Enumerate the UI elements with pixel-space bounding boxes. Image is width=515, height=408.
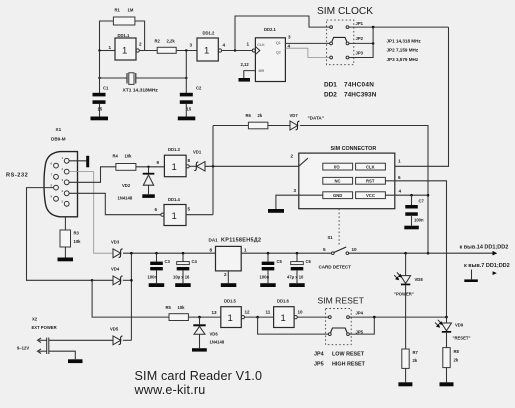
ground R7 xyxy=(398,382,412,386)
shunt on JP2 xyxy=(332,37,347,41)
gate DD1.4 inverter xyxy=(164,205,186,226)
svg-text:www.e-kit.ru: www.e-kit.ru xyxy=(134,383,206,397)
svg-text:1: 1 xyxy=(244,248,247,253)
svg-text:10k: 10k xyxy=(125,154,133,159)
svg-text:3: 3 xyxy=(288,35,291,40)
jumper JP4 xyxy=(328,316,331,319)
inverter bubble DD1.6 output xyxy=(294,316,297,319)
wire: node down to JP5 xyxy=(258,317,328,334)
svg-text:100n: 100n xyxy=(260,275,270,280)
svg-text:2: 2 xyxy=(224,272,227,277)
svg-text:1: 1 xyxy=(228,313,233,324)
svg-text:DD2: DD2 xyxy=(324,92,337,99)
svg-text:13: 13 xyxy=(212,310,218,315)
svg-text:CLK: CLK xyxy=(366,165,375,170)
svg-text:GND: GND xyxy=(333,193,342,198)
svg-text:SIM card Reader V1.0: SIM card Reader V1.0 xyxy=(135,369,263,383)
wire: R5 to DD1.5 input xyxy=(188,316,220,318)
svg-text:CLK: CLK xyxy=(257,43,265,47)
capacitor C7 xyxy=(411,195,413,205)
LED VD8 xyxy=(401,276,411,284)
svg-text:2,12: 2,12 xyxy=(241,62,250,67)
wire: SIM RST to reset common xyxy=(385,181,446,317)
svg-text:VD1: VD1 xyxy=(193,150,202,155)
wire: DD1.1 output to R2 xyxy=(139,50,157,52)
resistor R5 xyxy=(169,314,188,321)
connector SIM body box xyxy=(299,153,395,209)
wire: tap down to R5 row xyxy=(92,280,169,317)
svg-text:Q2: Q2 xyxy=(276,51,281,55)
wire: VD4 to rail xyxy=(123,279,132,281)
LED VD9 xyxy=(442,323,452,331)
wire: JP2 right to common vertical xyxy=(349,42,373,44)
ground C3 xyxy=(149,283,165,287)
junction: JP2 common xyxy=(372,42,375,45)
wire: feedback loop left leg (DD1.1 input to R1 left) xyxy=(100,21,114,51)
svg-text:C4: C4 xyxy=(192,259,198,264)
svg-text:1: 1 xyxy=(172,211,177,222)
svg-text:DD1.5: DD1.5 xyxy=(224,299,237,304)
wire: MR to ground xyxy=(244,71,256,78)
svg-text:LOW RESET: LOW RESET xyxy=(332,352,365,358)
ground DD2.1 MR xyxy=(239,78,251,82)
resistor R8 xyxy=(443,348,450,368)
resistor R4 xyxy=(116,164,136,171)
wire: power rail from VD3 to DA1 xyxy=(123,252,216,254)
svg-text:1: 1 xyxy=(109,45,112,50)
svg-text:10k: 10k xyxy=(74,239,82,244)
dashed link card detect xyxy=(338,209,340,246)
gate DD1.6 inverter xyxy=(274,307,295,328)
svg-text:2: 2 xyxy=(139,42,142,47)
svg-text:VD3: VD3 xyxy=(111,240,120,245)
svg-text:HIGH RESET: HIGH RESET xyxy=(332,362,366,368)
diode VD7 schottky xyxy=(290,121,298,130)
wire: X1 pin4 to DD1.4 input xyxy=(69,193,161,214)
svg-text:74HC393N: 74HC393N xyxy=(344,92,377,99)
connector X2 body xyxy=(46,338,48,355)
svg-text:9–12V: 9–12V xyxy=(17,346,29,351)
svg-text:100n: 100n xyxy=(414,218,424,223)
svg-text:DD1: DD1 xyxy=(324,82,337,89)
svg-text:DB9-M: DB9-M xyxy=(51,137,66,142)
junction: C5 node xyxy=(267,252,270,255)
svg-text:4: 4 xyxy=(399,189,402,194)
svg-text:DD1.6: DD1.6 xyxy=(277,299,290,304)
svg-text:"POWER": "POWER" xyxy=(394,292,414,297)
svg-text:JP2: JP2 xyxy=(356,36,364,41)
svg-text:X2: X2 xyxy=(32,317,38,322)
ground VD2 xyxy=(142,194,155,198)
svg-text:2k: 2k xyxy=(413,358,418,363)
shunt on JP5 xyxy=(331,328,347,333)
contact box NC xyxy=(323,177,353,184)
counter U DD2.1 xyxy=(255,38,285,82)
jumper JP3 xyxy=(330,56,333,59)
wire: X2 minus to ground xyxy=(49,351,76,359)
svg-text:1: 1 xyxy=(204,46,209,57)
wire: data vertical xyxy=(212,126,214,215)
ground C6 xyxy=(289,283,305,287)
svg-text:DD1.1: DD1.1 xyxy=(118,33,131,38)
junction: data node xyxy=(212,165,215,168)
svg-text:1: 1 xyxy=(398,159,401,164)
junction: reset common at VD9 xyxy=(445,316,448,319)
wire: R7 to ground xyxy=(405,368,407,382)
svg-text:VD2: VD2 xyxy=(122,183,131,188)
svg-text:S1: S1 xyxy=(328,235,334,240)
svg-text:100n: 100n xyxy=(148,275,158,280)
ground VD6 xyxy=(192,348,207,351)
LED arrows VD8 xyxy=(397,272,401,276)
svg-text:10: 10 xyxy=(352,247,358,252)
svg-text:8: 8 xyxy=(188,158,191,163)
resistor R1 xyxy=(113,17,134,25)
svg-text:DD1.4: DD1.4 xyxy=(168,197,181,202)
svg-text:C6: C6 xyxy=(306,259,312,264)
svg-text:VCC: VCC xyxy=(366,193,375,198)
jumper JP2 with shunt xyxy=(330,42,333,45)
svg-text:1N4148: 1N4148 xyxy=(210,340,225,345)
svg-text:JP1 14,318 MHz: JP1 14,318 MHz xyxy=(387,39,422,44)
connector X1 DB9 body xyxy=(44,152,78,217)
resistor R3 xyxy=(60,230,71,247)
contact box RST xyxy=(356,177,386,184)
wire: VD9 to R8 xyxy=(446,333,448,348)
svg-text:5: 5 xyxy=(323,247,326,252)
svg-text:R5: R5 xyxy=(166,305,172,310)
svg-text:NC: NC xyxy=(335,179,341,184)
wire: X1 shell to R3 xyxy=(64,217,66,230)
svg-text:JP2 7,159 MHz: JP2 7,159 MHz xyxy=(387,48,419,53)
ground X2 xyxy=(68,359,83,363)
svg-text:1: 1 xyxy=(281,313,286,324)
svg-text:Q1: Q1 xyxy=(276,41,281,45)
svg-text:4: 4 xyxy=(288,44,291,49)
wire: X1 pin7 left loop down to VD4 row xyxy=(27,188,93,281)
wire: DD1.4 output to data vertical xyxy=(186,214,213,216)
ground DA1 xyxy=(221,283,237,287)
svg-text:3: 3 xyxy=(190,43,193,48)
svg-text:MR: MR xyxy=(259,69,265,73)
svg-text:15: 15 xyxy=(98,107,103,112)
svg-text:JP5: JP5 xyxy=(314,362,324,368)
wire: crystal row right xyxy=(136,77,187,79)
capacitor C6 electrolytic xyxy=(296,253,298,261)
ground SIM GND xyxy=(268,209,284,213)
svg-text:C2: C2 xyxy=(196,86,202,91)
svg-text:C1: C1 xyxy=(103,86,109,91)
junction: C3 node xyxy=(155,252,158,255)
contact box CLK xyxy=(356,163,386,170)
LED arrows VD9 xyxy=(438,320,442,324)
svg-text:1M: 1M xyxy=(128,8,134,13)
junction: C6 node xyxy=(296,252,299,255)
svg-text:DD2.1: DD2.1 xyxy=(264,27,277,32)
junction: node at DD1.1 input and crystal xyxy=(98,49,100,51)
svg-text:"DATA": "DATA" xyxy=(308,116,324,121)
ground C1 xyxy=(91,117,109,121)
inverter bubble DD1.4 input xyxy=(161,213,164,216)
svg-text:C5: C5 xyxy=(277,259,283,264)
svg-text:VD8: VD8 xyxy=(415,277,424,282)
svg-text:47µ x 10: 47µ x 10 xyxy=(287,275,304,280)
wire: X1 pin2 gray line down to power rail xyxy=(69,172,113,254)
svg-text:JP4: JP4 xyxy=(356,311,364,316)
inverter bubble DD1.2 output xyxy=(218,49,221,52)
wire: VD7 to pull-up vertical xyxy=(300,126,428,254)
wire: C2 to ground xyxy=(185,104,187,117)
wire: DD1.5 to DD1.6 xyxy=(245,316,274,318)
svg-text:6: 6 xyxy=(155,207,158,212)
svg-text:X1: X1 xyxy=(56,127,62,132)
ground C7 xyxy=(404,226,419,230)
contact box VCC xyxy=(356,192,386,199)
svg-text:10k: 10k xyxy=(178,305,186,310)
wire: +5V rail to arrow xyxy=(349,252,493,254)
wire: JP1 right to common node xyxy=(349,26,448,28)
switch lever xyxy=(334,247,347,253)
jumper JP5 with shunt xyxy=(328,333,331,336)
svg-text:к выв.7 DD1;DD2: к выв.7 DD1;DD2 xyxy=(464,263,510,269)
svg-text:74HC04N: 74HC04N xyxy=(344,82,374,89)
svg-text:1: 1 xyxy=(122,46,127,57)
wire: DD2.1 Q1 output to JP2 xyxy=(285,42,330,44)
svg-text:2k: 2k xyxy=(454,358,459,363)
wire: R8 to ground xyxy=(446,368,448,383)
svg-text:RS-232: RS-232 xyxy=(6,173,28,179)
jumper block JP4 JP5 dashed box xyxy=(326,309,352,345)
wire: DD1.6 output to JP4 xyxy=(297,316,328,318)
svg-text:VD5: VD5 xyxy=(110,327,119,332)
ground C5 xyxy=(260,283,276,287)
arrow to ground feed xyxy=(493,271,497,275)
diode VD4 schottky xyxy=(113,276,121,285)
wire: JP4 right to reset common xyxy=(350,316,447,318)
diode VD5 schottky xyxy=(113,336,121,345)
svg-text:C7: C7 xyxy=(419,199,425,204)
junction: reset tap node xyxy=(91,279,94,282)
wire: R2 to DD1.2 input xyxy=(176,50,197,52)
inverter bubble DD1.1 output xyxy=(136,49,139,52)
svg-text:9: 9 xyxy=(157,160,160,165)
svg-text:R4: R4 xyxy=(113,154,119,159)
junction: C4 node xyxy=(182,252,185,255)
capacitor C3 xyxy=(156,253,158,261)
X2 pin 1 xyxy=(38,338,42,343)
pin 2 diagonal entry SIM I/O xyxy=(299,158,308,166)
jumper JP1 xyxy=(330,26,333,29)
svg-text:"RESET": "RESET" xyxy=(453,336,471,341)
arrow +5V feed xyxy=(493,251,498,256)
svg-text:XT1 14,318MHz: XT1 14,318MHz xyxy=(123,88,159,94)
gate DD1.3 inverter xyxy=(164,155,186,177)
wire: crystal row left xyxy=(100,77,128,79)
junction: DD1.2 output node xyxy=(234,49,236,51)
junction: pull-up at VCC row xyxy=(427,194,430,197)
junction: VD6 node xyxy=(198,316,201,319)
svg-text:SIM CONNECTOR: SIM CONNECTOR xyxy=(331,146,377,152)
junction: crystal right node xyxy=(185,77,187,79)
wire: diode rail vertical xyxy=(130,253,132,340)
svg-text:10: 10 xyxy=(298,310,304,315)
wire: X1 pin1 stub xyxy=(69,160,86,162)
capacitor C4 electrolytic xyxy=(182,253,184,261)
wire: data row to R6 xyxy=(213,125,248,127)
wire: X1 pin3 to R4 xyxy=(69,167,116,183)
regulator DA1 xyxy=(216,246,242,271)
junction: unregulated rail node xyxy=(130,252,133,255)
contact box GND xyxy=(323,192,353,199)
svg-text:I/O: I/O xyxy=(334,165,340,170)
junction: JP1 common xyxy=(372,26,375,29)
junction: VD2 node xyxy=(147,166,149,168)
resistor R2 xyxy=(157,47,176,53)
svg-text:DA1: DA1 xyxy=(209,238,219,243)
wire: reset common down to VD9 xyxy=(446,317,448,323)
junction: crystal leg on R2-DD1.2 wire xyxy=(185,49,187,51)
resistor R6 xyxy=(248,122,268,129)
switch S1 card detect contacts xyxy=(332,252,335,255)
junction: VD8 node on +5V rail xyxy=(404,252,407,255)
ground C4 xyxy=(175,283,191,287)
wire: VD8 to R7 xyxy=(405,285,407,349)
wire: VD5 to rail xyxy=(123,339,132,341)
wire: R3 to ground xyxy=(64,247,66,258)
wire: DD2.1 Q2 output to JP3 xyxy=(285,48,330,57)
inverter bubble DD2.1 clock input xyxy=(252,49,255,52)
svg-text:R3: R3 xyxy=(74,231,80,236)
svg-text:DD1.3: DD1.3 xyxy=(168,147,181,152)
jumper block dashed box xyxy=(327,20,354,65)
svg-text:SIM RESET: SIM RESET xyxy=(318,296,365,306)
junction: reset inverted node xyxy=(256,316,259,319)
crystal XT1 xyxy=(126,73,128,84)
diode VD2 clamp xyxy=(148,167,150,175)
wire: R4 to DD1.3 input xyxy=(136,166,165,168)
terminator bar on pin1 xyxy=(86,156,89,168)
capacitor C1 xyxy=(93,93,106,97)
svg-text:11: 11 xyxy=(266,310,271,315)
svg-text:VD9: VD9 xyxy=(455,323,464,328)
svg-text:R2: R2 xyxy=(155,39,161,44)
svg-text:4: 4 xyxy=(223,43,226,48)
svg-text:12: 12 xyxy=(245,310,251,315)
svg-text:EXT POWER: EXT POWER xyxy=(32,325,57,330)
svg-text:VD4: VD4 xyxy=(111,267,120,272)
wire: VD4 anode from tap xyxy=(92,279,113,281)
junction: JP5 riser node xyxy=(373,316,376,319)
junction: VD4 row at rail xyxy=(130,279,133,282)
svg-text:CARD DETECT: CARD DETECT xyxy=(319,265,352,270)
diode VD1 schottky xyxy=(194,162,198,171)
wire: R6 to VD7 xyxy=(268,125,290,127)
svg-text:VD7: VD7 xyxy=(290,113,299,118)
wire: R1 right leg down to output node xyxy=(135,21,145,51)
svg-text:JP3: JP3 xyxy=(356,51,364,56)
svg-text:1: 1 xyxy=(247,42,250,47)
svg-text:RST: RST xyxy=(366,179,375,184)
wire: JP3 right to common vertical xyxy=(349,27,373,57)
wire: SIM GND to ground xyxy=(276,195,323,209)
svg-text:KP1158EH5Д2: KP1158EH5Д2 xyxy=(221,238,261,244)
wire: right leg from R2 node down to C2 xyxy=(185,51,187,94)
svg-text:6: 6 xyxy=(398,175,401,180)
svg-text:R8: R8 xyxy=(454,349,460,354)
svg-text:JP1: JP1 xyxy=(356,21,364,26)
wire: DD1.1 input xyxy=(100,50,116,52)
wire: X2 plus to VD5 xyxy=(49,339,113,341)
svg-text:1N4148: 1N4148 xyxy=(118,196,133,201)
wire: C1 to ground xyxy=(99,104,101,117)
svg-text:JP3 3,579 MHz: JP3 3,579 MHz xyxy=(387,57,419,62)
wire: rail down to VD8 xyxy=(405,253,407,275)
svg-text:R7: R7 xyxy=(413,350,419,355)
wire: clock common down to SIM connector CLK xyxy=(385,27,448,166)
svg-text:R6: R6 xyxy=(246,113,252,118)
junction: C7 node xyxy=(410,194,413,197)
svg-text:15: 15 xyxy=(187,107,192,112)
wire: left leg down to C1 xyxy=(99,51,101,94)
svg-text:C3: C3 xyxy=(165,259,171,264)
svg-text:R1: R1 xyxy=(115,8,121,13)
junction: pull-up at +5V rail xyxy=(427,252,430,255)
svg-text:SIM CLOCK: SIM CLOCK xyxy=(317,6,373,17)
X2 pin 2 xyxy=(38,349,42,354)
diode VD6 clamp xyxy=(199,317,201,324)
inverter bubble DD1.3 output xyxy=(186,165,189,168)
capacitor C2 xyxy=(180,93,193,97)
ground C2 xyxy=(178,117,196,121)
ground R3 xyxy=(58,258,74,262)
svg-text:2,2k: 2,2k xyxy=(167,39,176,44)
inverter bubble DD1.5 output xyxy=(241,316,244,319)
svg-text:DD1.2: DD1.2 xyxy=(203,31,216,36)
svg-text:2: 2 xyxy=(291,154,294,159)
wire: SIM VCC row xyxy=(385,194,428,196)
svg-text:10µ x 16: 10µ x 16 xyxy=(173,275,190,280)
wire: JP5 right up to JP4 row xyxy=(350,317,375,334)
svg-text:8: 8 xyxy=(210,248,213,253)
wire: DD1.3 output to VD1 xyxy=(189,165,197,167)
wire: DD1.2 output to DD2.1 clock xyxy=(222,50,253,52)
svg-text:JP4: JP4 xyxy=(314,352,324,358)
svg-text:5: 5 xyxy=(188,207,191,212)
svg-text:к выв.14 DD1;DD2: к выв.14 DD1;DD2 xyxy=(460,244,509,250)
clock wedge DD2.1 xyxy=(255,47,259,55)
svg-text:2k: 2k xyxy=(258,113,263,118)
X1 pin circles right column xyxy=(64,158,69,163)
resistor R7 xyxy=(402,349,409,368)
X1 tiny pin numbers xyxy=(51,156,64,204)
capacitor C5 xyxy=(267,253,269,261)
diode VD3 schottky xyxy=(113,249,121,258)
wire: VD1 to data node and to SIM I/O xyxy=(205,165,299,167)
ground pin 7 symbol xyxy=(471,270,473,280)
X1 pin circles left column xyxy=(54,163,59,168)
wire: +5V rail DA1 to switch xyxy=(241,252,332,254)
op-amp gate DD1.1 inverter xyxy=(115,38,136,60)
gate DD1.2 inverter xyxy=(197,38,218,61)
ground R8 xyxy=(440,382,454,386)
wire: oscillator output up and over to JP1 xyxy=(235,16,330,51)
contact box I/O xyxy=(323,163,353,170)
svg-text:3: 3 xyxy=(294,188,297,193)
wire: DA1 ground pin xyxy=(227,271,229,283)
gate DD1.5 inverter xyxy=(221,307,242,328)
svg-text:VD6: VD6 xyxy=(210,332,219,337)
svg-text:1: 1 xyxy=(172,162,177,173)
